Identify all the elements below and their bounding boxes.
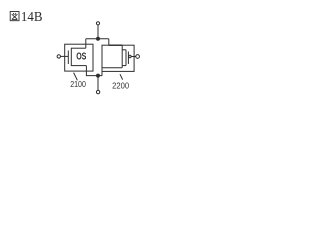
svg-text:2200: 2200 — [112, 81, 129, 91]
svg-text:14B: 14B — [21, 10, 43, 25]
svg-text:OS: OS — [76, 52, 86, 63]
svg-text:2100: 2100 — [70, 79, 86, 89]
